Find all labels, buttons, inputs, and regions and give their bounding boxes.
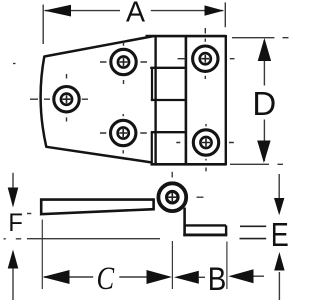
dimension E equals lower	[240, 238, 267, 240]
hole L centerline dashes	[30, 74, 88, 122]
dimension C right arrowhead	[147, 270, 173, 284]
label C	[97, 260, 116, 296]
hole TR outer circle	[193, 46, 218, 71]
hole BR cross	[202, 139, 210, 147]
label B	[208, 262, 227, 297]
right leaf top edge	[146, 35, 226, 38]
dimension D line	[263, 40, 265, 161]
dimension D top arrowhead	[258, 38, 271, 61]
svg-text:B: B	[208, 262, 227, 297]
hole TR inner circle	[200, 53, 211, 64]
right leaf right edge	[225, 35, 227, 165]
knuckle divider 2	[151, 99, 186, 101]
barrel centerline above	[171, 172, 173, 178]
knuckle divider 3	[151, 131, 186, 133]
hole LU centerline dashes	[100, 42, 147, 84]
hole LU outer circle	[111, 49, 136, 74]
svg-text:C: C	[97, 260, 116, 296]
dimension F upper arrowhead	[8, 188, 19, 208]
label F	[8, 209, 23, 237]
offset leaf bar bottom edge	[183, 233, 227, 236]
dimension E upper arrowhead	[274, 198, 284, 215]
dimension C left extension line	[41, 220, 43, 290]
left leaf outline	[41, 36, 154, 162]
dimension F lower arrowhead	[8, 250, 19, 269]
hole L outer circle	[54, 87, 79, 112]
knuckle seam segment 4	[151, 132, 153, 164]
dimension B left tail	[199, 276, 205, 278]
dimension E lower arrowhead	[274, 252, 284, 271]
offset leaf leg	[183, 208, 186, 237]
dimension E lower line	[278, 272, 280, 300]
hole TR cross	[201, 55, 209, 63]
label D	[252, 85, 276, 122]
barrel pin circle	[167, 191, 179, 203]
dimension A right arrowhead	[205, 5, 224, 15]
svg-text:F: F	[8, 209, 23, 237]
hole BR outer circle	[193, 130, 218, 155]
dimension F upper line	[12, 173, 14, 190]
mounting plane line	[4, 238, 161, 240]
hole LU inner circle	[118, 56, 129, 67]
label E	[271, 218, 289, 254]
dimension C line	[44, 276, 147, 278]
dimension B left arrowhead	[174, 271, 199, 284]
stray centerline dot	[13, 63, 16, 65]
dimension D bottom extension line	[230, 163, 283, 165]
hole BR centerline dashes	[176, 124, 234, 171]
hole TR centerline dashes	[178, 28, 235, 79]
dimension D top extension line	[232, 37, 289, 39]
dimension B right arrowhead	[228, 269, 253, 283]
knuckle right vertical line	[185, 36, 188, 164]
knuckle seam segment 2	[151, 68, 153, 100]
hole L cross	[63, 95, 71, 103]
hole LL centerline dashes	[100, 114, 147, 154]
dimension A left arrowhead	[44, 5, 71, 17]
svg-text:D: D	[252, 85, 276, 122]
dimension A extension line left	[42, 5, 44, 44]
hole L inner circle	[61, 94, 72, 105]
barrel outer circle	[158, 183, 186, 211]
knuckle main vertical line	[154, 36, 156, 164]
right leaf bottom edge	[151, 163, 226, 166]
dimension C left arrowhead	[43, 270, 70, 284]
shared extension line C/B	[171, 241, 173, 289]
bar bottom dash-dot extension	[27, 213, 31, 215]
dimension A extension line right	[224, 2, 226, 27]
hole BR inner circle	[200, 137, 211, 148]
hole LL outer circle	[111, 120, 136, 145]
svg-text:A: A	[126, 0, 145, 29]
offset leaf bar top edge	[185, 224, 227, 226]
hole LU cross	[120, 58, 128, 66]
dimension B right tail	[254, 275, 265, 277]
dimension E equals upper	[240, 225, 266, 227]
offset leaf bar right edge	[225, 225, 227, 235]
dimension B right extension line	[226, 242, 228, 290]
dimension D bottom arrowhead	[257, 141, 270, 164]
side view flat leaf bar	[41, 200, 153, 215]
hole LL cross	[119, 129, 127, 137]
knuckle divider 1	[150, 67, 186, 69]
dimension A line	[45, 10, 224, 12]
hole LL inner circle	[118, 127, 129, 138]
svg-text:E: E	[271, 218, 289, 254]
dimension F lower line	[12, 266, 14, 300]
dimension E upper line	[278, 174, 280, 200]
barrel pin cross	[168, 193, 176, 201]
barrel centerline right dash	[197, 196, 204, 198]
